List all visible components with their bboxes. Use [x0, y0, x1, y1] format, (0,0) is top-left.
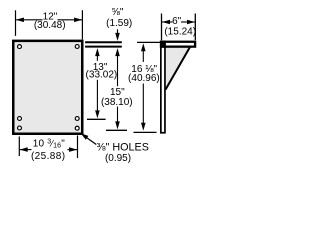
dim 10-3/16in: left extension line [18, 137, 20, 157]
dim 16-1/8in: top arrow [141, 43, 146, 51]
svg-text:(1.59): (1.59) [106, 18, 132, 29]
dim 12in: left line + arrow [16, 19, 42, 21]
dim 6in: left line + arrow [162, 21, 173, 23]
dim 6in: right extension line [194, 14, 196, 41]
hole top-right [75, 45, 79, 49]
svg-text:⅝": ⅝" [112, 7, 124, 18]
flange extension line upper (between views) [85, 41, 122, 43]
dim 15in: bottom extension line [106, 129, 127, 131]
dim 6in: right line + arrow [181, 21, 195, 23]
gusset hypotenuse [166, 47, 191, 90]
dim 5/8in: down arrow [117, 29, 119, 34]
svg-text:(25.88): (25.88) [31, 151, 66, 162]
hole bottom-left upper [18, 117, 22, 121]
svg-text:⅜" HOLES: ⅜" HOLES [97, 142, 149, 154]
dim 13in: bottom arrow [96, 80, 98, 112]
flange extension line lower (between views) [85, 46, 122, 48]
hole top-left [18, 45, 22, 49]
dim 6in: left extension line [161, 14, 163, 41]
dim 12in: right extension line [81, 10, 83, 39]
hole bottom-left lower [18, 126, 22, 130]
svg-text:(0.95): (0.95) [105, 153, 131, 164]
vertical plate (side view) [161, 41, 165, 132]
hole bottom-right lower [75, 126, 79, 130]
gusset triangle (side view) [165, 46, 191, 90]
dim 16-1/8in: bottom extension line [134, 131, 157, 133]
dim 10-3/16in: left line + arrow [20, 149, 32, 151]
dim 13in: bottom extension line [87, 118, 106, 120]
bracket corner joint (solid) [160, 41, 166, 48]
leader line to holes [84, 136, 96, 145]
svg-text:(40.96): (40.96) [128, 73, 160, 84]
svg-text:6": 6" [172, 16, 182, 27]
top flange (side view) [161, 42, 195, 47]
svg-text:(15.24): (15.24) [164, 27, 196, 38]
svg-text:(33.02): (33.02) [86, 69, 118, 80]
dim 13in: top arrow [95, 48, 100, 56]
svg-text:(30.48): (30.48) [34, 20, 66, 31]
dim 12in: left extension line [15, 10, 17, 36]
dim 10-3/16in: right extension line [77, 136, 79, 159]
dim 10-3/16in: right line + arrow [68, 149, 78, 151]
svg-text:(38.10): (38.10) [101, 97, 133, 108]
dim 16-1/8in: bottom arrow [142, 84, 144, 125]
mounting plate (front view) [13, 41, 82, 134]
dim 15in: top arrow [115, 48, 120, 56]
dim 15in: bottom arrow [117, 107, 119, 123]
hole bottom-right upper [75, 117, 79, 121]
dim 12in: right line + arrow [58, 19, 82, 21]
dim 16-1/8in: top extension line [137, 41, 160, 43]
